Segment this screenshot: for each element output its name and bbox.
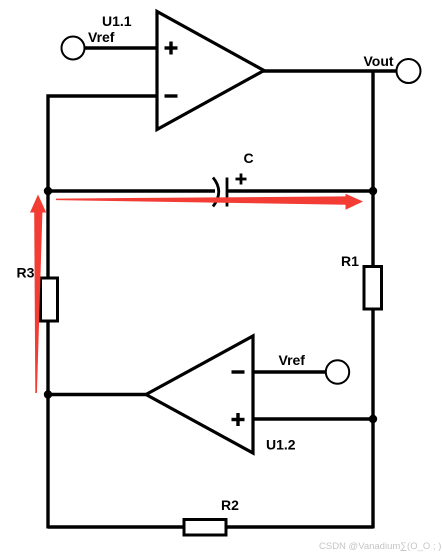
svg-text:U1.2: U1.2 [266,437,296,453]
svg-text:Vref: Vref [279,352,306,368]
wire: U1.2 - input to Vref terminal [253,370,326,373]
svg-text:R2: R2 [221,497,239,513]
wire: Vref terminal to U1.1 + input [85,46,157,49]
wire: U1.1 output to Vout terminal [263,69,397,72]
wire: R3 bottom to left lower rail down to bottom wire [46,321,49,529]
wire: U1.1 - input to left rail [48,96,157,190]
U1.2 - input symbol [232,370,245,373]
svg-text:Vout: Vout [364,53,394,69]
svg-text:C: C [244,150,254,166]
U1.2 + input symbol [232,413,245,426]
node: left lower junction [44,390,52,398]
wire: capacitor to right rail middle segment [227,189,373,192]
capacitor C curved plate [213,178,219,207]
capacitor polarity + [236,174,247,185]
svg-text:U1.1: U1.1 [102,13,132,29]
wire: middle net left segment to capacitor [48,189,215,192]
wire: U1.2 output to left rail [48,393,146,396]
svg-text:R3: R3 [17,265,35,281]
wire: bottom net left segment to R2 [48,525,184,528]
svg-text:CSDN @Vanadium∑(O_O ; ): CSDN @Vanadium∑(O_O ; ) [319,541,441,552]
terminal Vref (U1.1) [62,37,85,60]
wire: U1.2 + input to right rail [253,417,373,420]
watermark sigma underline [401,550,407,552]
node: right middle junction [369,187,377,195]
op-amp U1.1 [157,12,264,130]
U1.1 - input symbol [165,94,178,97]
resistor R3 [41,278,58,321]
op-amp U1.2 [146,336,253,453]
node: right lower junction [369,415,377,423]
wire: left rail node to R3 top [46,190,49,279]
wire: output branch down right rail to R1 top [371,71,374,267]
wire: R1 bottom down right rail to bottom wire [371,309,374,529]
resistor R2 [184,520,226,536]
terminal Vref (U1.2) [326,360,349,383]
wire: R2 to right rail bottom segment [226,525,373,528]
svg-text:Vref: Vref [88,29,115,45]
capacitor C straight plate [226,178,229,207]
svg-text:R1: R1 [341,253,359,269]
node: left middle junction [44,187,52,195]
resistor R1 [364,267,382,310]
terminal Vout [397,59,421,83]
annotation arrow right (middle, red) [56,194,363,210]
annotation arrow up (left, red) [30,195,46,394]
U1.1 + input symbol [165,42,178,55]
